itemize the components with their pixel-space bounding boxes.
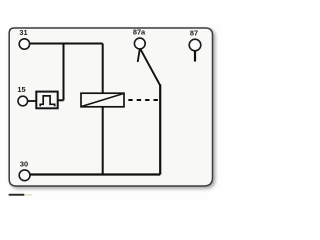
wire: contact fixed leg [159,85,161,175]
coil diagonal [81,94,123,107]
terminal 87a [134,38,145,49]
actuator dashed link coil to contact [128,99,160,101]
faint yellow smudge [24,194,32,196]
stray mark below frame [9,194,25,196]
contact arm 87a (movable switch blade) [140,48,160,85]
relay body outline (rounded frame with shadow) [9,28,212,186]
svg-text:87: 87 [190,29,198,38]
terminal 31 [19,39,29,49]
svg-text:31: 31 [19,28,27,37]
wire: bottom rail from terminal 30 to contact [30,173,160,175]
svg-text:87a: 87a [133,28,146,37]
svg-text:30: 30 [20,160,28,169]
contact arm arrowhead barb [138,48,140,62]
wire: terminal 87 stub [194,51,196,62]
svg-text:15: 15 [17,85,25,94]
terminal 15 [18,96,28,106]
terminal 87 [189,39,201,51]
wire: vertical drop to timer output [63,44,65,101]
wire: timer output stub [59,99,64,101]
wire: terminal 31 to junction above coil [30,43,103,45]
relay coil K1 (box with diagonal) [81,93,124,107]
wire: terminal 15 into timer box [27,100,37,102]
terminal 30 [19,170,30,181]
wire: junction down into coil top [102,44,104,94]
pulse symbol inside timer box [40,96,55,107]
wire: coil bottom down to bottom rail [102,107,104,175]
timer box U1 (pulse relay electronics) [36,92,57,109]
